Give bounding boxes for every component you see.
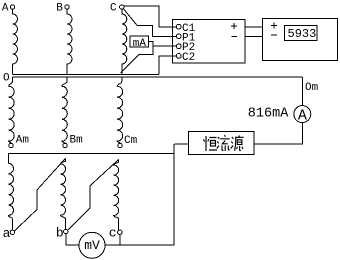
svg-text:a: a [3,226,11,241]
svg-text:B: B [56,3,63,15]
svg-text:Bm: Bm [70,134,84,146]
svg-text:C: C [110,3,117,15]
svg-text:mV: mV [84,238,100,253]
svg-text:816mA: 816mA [248,106,289,121]
svg-text:Om: Om [305,82,319,94]
svg-text:A: A [2,3,9,15]
svg-text:O: O [3,73,10,85]
svg-text:Cm: Cm [124,135,138,147]
svg-text:Am: Am [16,134,30,146]
svg-text:mA: mA [133,38,147,50]
svg-text:A: A [298,107,307,124]
svg-text:b: b [56,226,64,241]
svg-text:C2: C2 [182,52,195,64]
svg-text:5933: 5933 [288,27,317,41]
svg-text:c: c [109,225,117,240]
